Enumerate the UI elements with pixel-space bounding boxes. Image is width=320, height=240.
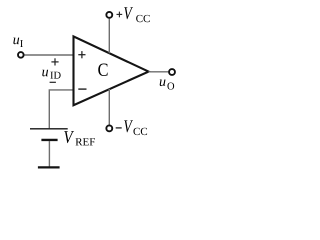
label uID bbox=[42, 70, 60, 79]
label +Vcc bbox=[124, 7, 150, 22]
node -Vcc terminal circle bbox=[106, 125, 112, 131]
label -Vcc bbox=[124, 120, 147, 135]
ground reference bar bbox=[38, 166, 60, 168]
node uI input terminal circle bbox=[18, 52, 24, 58]
battery Vref positive plate (long) bbox=[30, 128, 68, 130]
label uI bbox=[13, 38, 23, 47]
label - inside op-amp (inverting pin) bbox=[78, 88, 86, 90]
label + of +Vcc bbox=[117, 12, 123, 18]
op-amp comparator C triangle bbox=[74, 36, 149, 105]
label - of -Vcc bbox=[116, 127, 122, 129]
label Vref bbox=[64, 131, 95, 145]
wire inverting input from op-amp to battery bbox=[49, 90, 73, 128]
label - polarity of uID bbox=[50, 81, 56, 83]
wire non-inverting input from terminal to op-amp bbox=[24, 54, 73, 56]
label uO bbox=[160, 79, 174, 89]
wire battery negative to ground bbox=[48, 141, 50, 167]
label + polarity of uID bbox=[51, 58, 58, 65]
label + inside op-amp (non-inverting pin) bbox=[78, 51, 85, 58]
wire output from apex to terminal bbox=[149, 71, 169, 73]
battery Vref negative plate (short thick) bbox=[41, 139, 57, 141]
wire -Vcc supply from op-amp bottom edge bbox=[108, 89, 110, 125]
wire +Vcc supply to op-amp top edge bbox=[108, 19, 110, 54]
node uO output terminal circle bbox=[169, 69, 175, 75]
node +Vcc terminal circle bbox=[106, 12, 112, 18]
label C bbox=[98, 64, 107, 76]
